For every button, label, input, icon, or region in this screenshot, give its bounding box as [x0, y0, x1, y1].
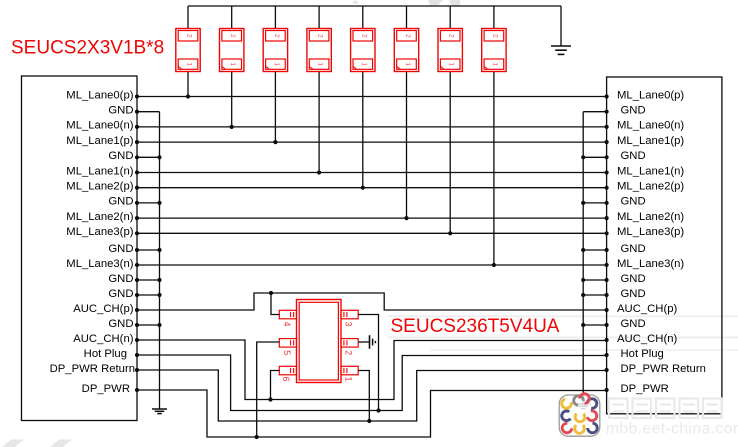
svg-text:1: 1 — [229, 62, 236, 66]
svg-text:ML_Lane1(n): ML_Lane1(n) — [66, 165, 133, 177]
svg-text:ML_Lane3(n): ML_Lane3(n) — [66, 258, 133, 270]
svg-text:1: 1 — [186, 62, 193, 66]
op-amp/IC U1 SEUCS236T5V4UA body — [279, 300, 358, 383]
svg-text:GND: GND — [621, 105, 646, 117]
svg-text:GND: GND — [621, 150, 646, 162]
svg-text:4: 4 — [282, 321, 292, 326]
svg-text:1: 1 — [360, 62, 367, 66]
svg-text:AUC_CH(n): AUC_CH(n) — [73, 333, 133, 345]
watermark fragment top center — [352, 0, 460, 7]
svg-text:GND: GND — [108, 150, 133, 162]
svg-text:ML_Lane3(p): ML_Lane3(p) — [66, 226, 133, 238]
svg-text:ML_Lane1(p): ML_Lane1(p) — [66, 135, 133, 147]
bypass cap C6 (SEUCS2X3V1B) — [394, 6, 418, 218]
top GND bus — [188, 5, 561, 7]
watermark url text — [606, 421, 738, 438]
GND rail left with pin stubs — [137, 112, 162, 409]
ground symbol IC pin 2 (rotated) — [358, 335, 375, 349]
wire IC pin 3 to Hot Plug — [358, 315, 378, 411]
svg-text:2: 2 — [273, 34, 280, 38]
svg-text:ML_Lane2(p): ML_Lane2(p) — [617, 181, 684, 193]
svg-text:ML_Lane1(n): ML_Lane1(n) — [617, 165, 684, 177]
svg-text:1: 1 — [344, 376, 354, 381]
wire ML_Lane2(n) — [137, 216, 607, 220]
svg-text:2: 2 — [404, 34, 411, 38]
svg-text:DP_PWR: DP_PWR — [82, 383, 130, 395]
svg-text:SEUCS236T5V4UA: SEUCS236T5V4UA — [391, 316, 560, 337]
wire ML_Lane0(p) — [137, 94, 607, 98]
svg-text:AUC_CH(n): AUC_CH(n) — [617, 333, 677, 345]
wire ML_Lane3(p) — [137, 231, 607, 235]
bypass cap C2 (SEUCS2X3V1B) — [220, 6, 244, 127]
svg-text:GND: GND — [621, 288, 646, 300]
svg-text:ML_Lane3(n): ML_Lane3(n) — [617, 258, 684, 270]
wire ML_Lane0(n) — [137, 125, 607, 129]
ground symbol right rail — [576, 404, 591, 409]
bypass cap C1 (SEUCS2X3V1B) — [176, 6, 200, 97]
wire DP_PWR net — [137, 390, 607, 439]
bypass cap C5 (SEUCS2X3V1B) — [351, 6, 375, 188]
right connector pin dots — [605, 94, 609, 392]
svg-text:2: 2 — [186, 34, 193, 38]
right connector pin labels — [617, 89, 706, 395]
wire ML_Lane2(p) — [137, 186, 607, 190]
bypass cap C3 (SEUCS2X3V1B) — [263, 6, 287, 142]
svg-text:DP_PWR Return: DP_PWR Return — [50, 363, 135, 375]
svg-text:GND: GND — [108, 273, 133, 285]
svg-text:3: 3 — [344, 321, 354, 326]
svg-text:ML_Lane3(p): ML_Lane3(p) — [617, 226, 684, 238]
wire ML_Lane3(n) — [137, 263, 607, 267]
svg-text:6: 6 — [281, 376, 291, 381]
left connector pin dots — [135, 94, 139, 392]
svg-text:2: 2 — [491, 34, 498, 38]
watermark fragment bottom left — [2, 440, 72, 447]
svg-text:2: 2 — [229, 34, 236, 38]
label SEUCS2X3V1B*8 — [11, 38, 164, 59]
svg-text:ML_Lane0(p): ML_Lane0(p) — [617, 89, 684, 101]
svg-text:mbb.eet-china.com: mbb.eet-china.com — [606, 421, 738, 438]
svg-text:SEUCS2X3V1B*8: SEUCS2X3V1B*8 — [11, 38, 164, 59]
svg-text:1: 1 — [448, 62, 455, 66]
watermark mid band — [388, 315, 738, 350]
label SEUCS236T5V4UA — [391, 316, 560, 337]
ground symbol top right — [551, 6, 571, 54]
svg-text:5: 5 — [282, 350, 292, 355]
svg-text:GND: GND — [108, 196, 133, 208]
svg-text:1: 1 — [404, 62, 411, 66]
svg-text:ML_Lane2(n): ML_Lane2(n) — [617, 211, 684, 223]
svg-text:ML_Lane2(n): ML_Lane2(n) — [66, 211, 133, 223]
svg-text:AUC_CH(p): AUC_CH(p) — [617, 303, 677, 315]
wire IC pin 1 to DP_PWR Return — [358, 371, 369, 422]
svg-text:Hot Plug: Hot Plug — [84, 348, 127, 360]
connector right (DP sink) — [607, 77, 722, 414]
svg-text:2: 2 — [344, 350, 354, 355]
svg-text:GND: GND — [621, 273, 646, 285]
svg-text:ML_Lane1(p): ML_Lane1(p) — [617, 135, 684, 147]
svg-text:GND: GND — [108, 243, 133, 255]
svg-text:GND: GND — [108, 288, 133, 300]
svg-text:GND: GND — [621, 318, 646, 330]
svg-text:2: 2 — [448, 34, 455, 38]
wire IC pin 5 to DP_PWR — [257, 342, 280, 437]
wire IC pin 6 to AUC_CH(n) — [271, 371, 280, 400]
svg-text:GND: GND — [108, 318, 133, 330]
svg-text:1: 1 — [273, 62, 280, 66]
svg-text:ML_Lane0(n): ML_Lane0(n) — [66, 120, 133, 132]
svg-text:ML_Lane2(p): ML_Lane2(p) — [66, 181, 133, 193]
bypass cap C8 (SEUCS2X3V1B) — [482, 6, 506, 265]
svg-text:ML_Lane0(n): ML_Lane0(n) — [617, 120, 684, 132]
wire AUC_CH(n) net — [137, 340, 607, 402]
bypass cap C4 (SEUCS2X3V1B) — [307, 6, 331, 173]
watermark logo bottom right — [559, 392, 600, 436]
wire AUC_CH(p) net — [137, 291, 607, 310]
svg-text:2: 2 — [317, 34, 324, 38]
watermark text mianbaoban (CJK placeholder shapes) — [609, 399, 722, 419]
ground symbol left rail — [152, 409, 167, 414]
svg-text:ML_Lane0(p): ML_Lane0(p) — [66, 89, 133, 101]
wire branch to IC pin 4 — [271, 293, 279, 315]
bypass cap C7 (SEUCS2X3V1B) — [438, 6, 462, 233]
wire ML_Lane1(p) — [137, 140, 607, 144]
svg-text:GND: GND — [621, 196, 646, 208]
svg-text:Hot Plug: Hot Plug — [621, 348, 664, 360]
svg-text:DP_PWR: DP_PWR — [621, 383, 669, 395]
wire DP_PWR Return net — [137, 370, 607, 423]
svg-text:AUC_CH(p): AUC_CH(p) — [73, 303, 133, 315]
svg-text:GND: GND — [621, 243, 646, 255]
svg-text:1: 1 — [491, 62, 498, 66]
connector left (DP source) — [22, 76, 138, 421]
GND rail right with pin stubs — [581, 112, 606, 404]
svg-text:1: 1 — [317, 62, 324, 66]
wire ML_Lane1(n) — [137, 170, 607, 174]
left connector pin labels — [50, 89, 135, 395]
svg-text:2: 2 — [360, 34, 367, 38]
svg-text:GND: GND — [108, 105, 133, 117]
wire Hot Plug net — [137, 355, 607, 413]
svg-text:DP_PWR Return: DP_PWR Return — [621, 363, 706, 375]
